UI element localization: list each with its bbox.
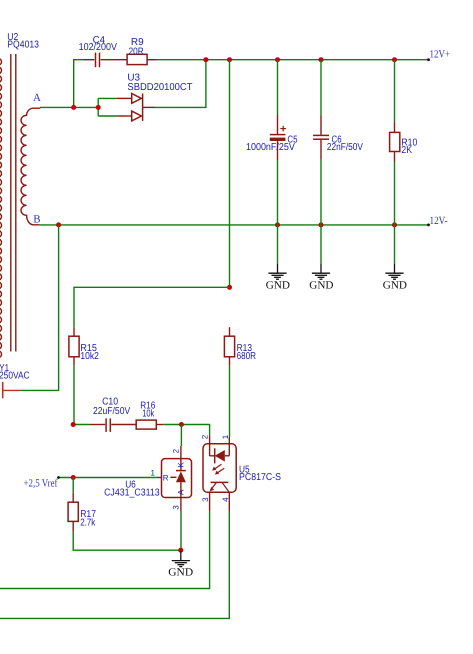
diode U3 lower: triangle <box>132 111 142 121</box>
wire: U3 lower anode lead (green part) <box>98 115 116 117</box>
junction: R13 feed on 12V+ rail <box>227 57 232 62</box>
wire: U6 cathode riser <box>180 425 182 447</box>
transformer U2 primary winding (clipped at left edge) <box>0 58 2 359</box>
svg-text:2: 2 <box>201 434 210 439</box>
diode U3 upper: triangle <box>132 94 142 104</box>
wire: U5 pin 4 return to left edge <box>0 511 229 618</box>
optocoupler U5 pin 3 stub <box>209 492 211 511</box>
resistor R10 bottom stub <box>394 152 396 162</box>
resistor R15 bottom stub <box>73 357 75 366</box>
capacitor CY1 lead <box>3 389 21 391</box>
junction: R10 on 12V+ rail <box>392 57 397 62</box>
capacitor C5 top plate <box>270 134 286 136</box>
resistor R9 body <box>127 54 147 64</box>
shunt regulator U6 body <box>162 459 192 498</box>
svg-text:R: R <box>163 473 169 482</box>
wire: C4 riser and top-left corner <box>74 60 84 108</box>
wire: 12V+ drop to R13 (crosses 12V- rail) <box>229 60 231 288</box>
svg-text:PC817C-S: PC817C-S <box>239 472 281 483</box>
wire: R16 to U6 K riser and U5 pin2 <box>163 425 209 436</box>
optocoupler U5 collector (to pin 4) <box>222 482 229 492</box>
capacitor C5 top pin <box>277 115 279 134</box>
wire: C5 bottom <box>277 160 279 225</box>
wire: C5 top <box>277 60 279 115</box>
wire: Vref node down to R17 <box>72 478 74 493</box>
ground symbol GND (under C5) <box>268 264 286 280</box>
svg-text:2K: 2K <box>401 145 412 156</box>
resistor R13 body <box>224 336 234 357</box>
optocoupler U5 emitter (arrow to pin 3) <box>210 482 217 491</box>
svg-text:K: K <box>176 462 185 468</box>
svg-text:3: 3 <box>172 505 181 510</box>
svg-text:4: 4 <box>221 497 230 502</box>
net label +2.5Vref anchor dot <box>57 476 60 479</box>
svg-text:1000nF/25V: 1000nF/25V <box>246 142 295 153</box>
optocoupler U5 pin 4 stub <box>228 492 230 511</box>
capacitor CY1 plate (clipped at left edge) <box>2 382 4 398</box>
diode U3 lower: anode pin <box>117 115 132 117</box>
shunt regulator U6 reference lead <box>170 476 176 478</box>
optocoupler U5 LED triangle <box>215 450 225 462</box>
wire: C6 bottom <box>320 159 322 225</box>
junction: C5 on 12V+ rail <box>275 57 280 62</box>
shunt regulator U6 cathode bar <box>176 470 186 472</box>
svg-text:22nF/50V: 22nF/50V <box>327 142 363 153</box>
svg-text:10k: 10k <box>142 408 155 419</box>
svg-text:+2,5 Vref: +2,5 Vref <box>24 478 58 490</box>
junction: C6 on 12V+ rail <box>319 57 324 62</box>
diode array U3: anode riser wire <box>97 98 99 116</box>
junction: R10 on 12V- rail <box>392 222 397 227</box>
svg-text:102/200V: 102/200V <box>79 42 118 53</box>
shunt regulator U6 triangle <box>176 471 186 482</box>
capacitor C5 bottom plate (thick) <box>270 138 286 141</box>
junction: R15/C10/Vref node <box>71 422 76 427</box>
svg-text:22uF/50V: 22uF/50V <box>93 406 130 417</box>
wire: B drop to CY1 <box>20 225 58 391</box>
transformer U2 secondary winding <box>21 108 40 225</box>
wire: GND drop from rail (C5) <box>277 225 279 264</box>
wire: R15 bottom to C10 node <box>73 366 75 425</box>
junction: B node <box>56 222 61 227</box>
svg-text:GND: GND <box>309 280 333 292</box>
diode U3 upper: anode pin <box>117 97 132 99</box>
optocoupler U5 phototransistor base bar <box>211 481 229 483</box>
diode U3 common cathode bar <box>142 94 144 121</box>
capacitor C4 right pin <box>101 59 128 61</box>
svg-text:CJ431_C3113: CJ431_C3113 <box>104 488 160 499</box>
capacitor C4 plates <box>96 53 100 68</box>
optocoupler U5 LED cathode bar <box>214 448 216 463</box>
resistor R13 bottom stub <box>229 357 231 366</box>
svg-text:250VAC: 250VAC <box>0 371 30 382</box>
wire: 12V+ top rail <box>157 59 428 61</box>
svg-text:2.7k: 2.7k <box>80 517 96 528</box>
svg-text:1: 1 <box>151 469 156 478</box>
capacitor C10 right pin <box>111 424 136 426</box>
junction: R13/R15 divider top <box>227 285 232 290</box>
capacitor C5 plus sign <box>280 126 286 132</box>
shunt regulator U6 pin 1 (R) stub <box>157 477 162 479</box>
wire: U6 anode down to GND junction <box>180 511 182 550</box>
wire: 12V- rail from B <box>39 224 428 226</box>
wire: U3 cathode to 12V+ rail <box>155 60 206 108</box>
capacitor C10 left pin <box>90 424 105 426</box>
resistor R9 right stub <box>147 59 157 61</box>
resistor R17 body <box>68 502 78 521</box>
svg-text:20R: 20R <box>129 46 144 57</box>
svg-text:A: A <box>176 489 185 495</box>
wire: R17 bottom to GND wire <box>73 531 181 550</box>
resistor R16 right stub <box>156 424 163 426</box>
capacitor C6 top pin <box>320 116 322 135</box>
svg-text:GND: GND <box>266 280 290 292</box>
junction: Vref node <box>71 475 76 480</box>
svg-text:10k2: 10k2 <box>80 351 99 362</box>
svg-text:12V-: 12V- <box>430 215 448 227</box>
resistor R15 body <box>69 336 79 357</box>
ground symbol GND (bottom) <box>172 551 190 567</box>
optocoupler U5 pin 2 stub <box>210 435 215 456</box>
power net 12V+ anchor dot <box>427 58 430 61</box>
junction: A wire / C4 riser <box>71 105 76 110</box>
capacitor C6 bottom pin <box>320 140 322 159</box>
resistor R10 top stub <box>394 122 396 132</box>
wire: U3 upper anode lead (green part) <box>98 97 116 99</box>
optocoupler U5 light arrow 2 <box>215 468 224 474</box>
junction: R16/U6K/U5 node <box>179 422 184 427</box>
svg-text:PQ4013: PQ4013 <box>7 40 39 51</box>
resistor R15 top stub <box>73 327 75 336</box>
optocoupler U5 pin 1 stub <box>228 437 230 456</box>
resistor R17 bottom stub <box>72 521 74 531</box>
junction: C5 on 12V- rail <box>275 222 280 227</box>
transformer U2 core <box>11 54 16 352</box>
power net 12V- anchor dot <box>427 224 430 227</box>
junction: A wire / U3 anodes <box>96 105 101 110</box>
svg-text:1: 1 <box>221 434 230 439</box>
svg-text:A: A <box>33 92 41 104</box>
diode U3 output pin <box>143 106 155 108</box>
svg-text:680R: 680R <box>237 351 256 362</box>
ground symbol GND (under C6) <box>312 264 330 280</box>
wire A: coil top to U3 anodes <box>40 106 98 108</box>
shunt regulator U6 anode lead <box>180 482 182 497</box>
wire: R10 bottom <box>394 162 396 225</box>
optocoupler U5 LED anode lead <box>225 455 230 457</box>
junction: U3 riser on 12V+ rail <box>203 57 208 62</box>
capacitor C5 bottom pin <box>277 141 279 160</box>
resistor R16 body <box>136 420 156 429</box>
junction: GND node <box>178 548 183 553</box>
optocoupler U5 body <box>203 444 236 493</box>
capacitor C10 plates <box>106 418 110 432</box>
wire: C6 top <box>320 60 322 116</box>
wire: GND drop from rail (R10) <box>394 225 396 264</box>
wire: Vref horizontal <box>59 477 157 479</box>
ground symbol GND (under R10) <box>385 264 403 280</box>
svg-text:2: 2 <box>172 448 181 453</box>
wire: R13 bottom to U5 pin1 <box>229 366 231 437</box>
wire: divider horizontal to R15 <box>74 287 230 327</box>
capacitor C4 left pin <box>84 59 95 61</box>
svg-text:SBDD20100CT: SBDD20100CT <box>127 82 192 93</box>
shunt regulator U6 pin 2 (K) stub <box>180 446 182 471</box>
junction: C6 on 12V- rail <box>319 222 324 227</box>
resistor R17 top stub <box>72 493 74 502</box>
resistor R13 top stub <box>229 327 231 336</box>
wire: U5 pin 3 return to left edge <box>0 511 210 588</box>
wire: R10 top <box>394 60 396 123</box>
svg-text:B: B <box>33 214 40 226</box>
wire: GND drop from rail (C6) <box>320 225 322 264</box>
svg-text:12V+: 12V+ <box>430 48 451 60</box>
optocoupler U5 light arrow 1 <box>212 464 221 470</box>
wire: C10 node left <box>73 424 90 426</box>
svg-text:GND: GND <box>168 566 193 578</box>
svg-text:GND: GND <box>383 280 407 292</box>
resistor R10 body <box>390 132 400 151</box>
capacitor C6 plates <box>313 135 329 139</box>
shunt regulator U6 pin 3 (A) stub <box>180 498 182 512</box>
svg-text:3: 3 <box>201 497 210 502</box>
